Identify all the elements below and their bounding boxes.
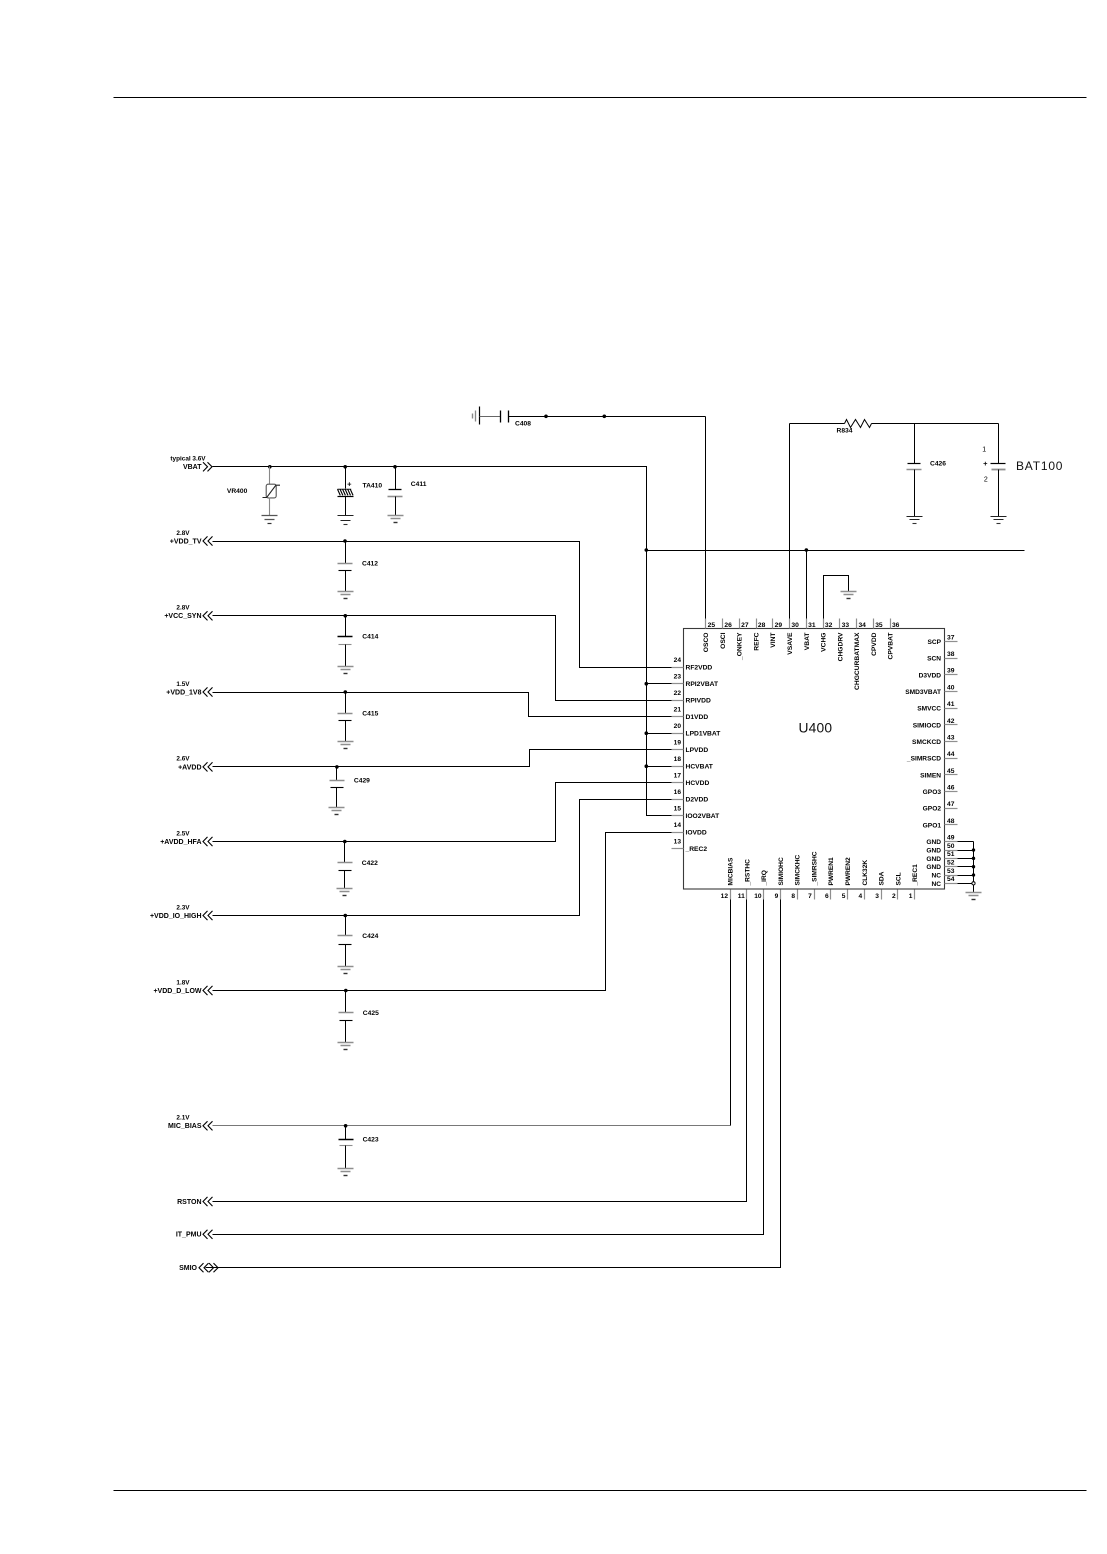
svg-text:2.8V: 2.8V [176, 605, 190, 612]
svg-text:22: 22 [674, 690, 682, 697]
svg-text:C429: C429 [354, 778, 370, 785]
svg-text:17: 17 [674, 773, 682, 780]
svg-text:BAT100: BAT100 [1016, 459, 1063, 473]
svg-text:CHGDRV: CHGDRV [837, 632, 844, 661]
svg-text:OSCI: OSCI [720, 632, 727, 648]
svg-text:_REC2: _REC2 [685, 846, 708, 853]
svg-text:typical 3.6V: typical 3.6V [170, 456, 206, 463]
svg-text:RPI2VBAT: RPI2VBAT [686, 681, 719, 688]
svg-text:1.5V: 1.5V [176, 681, 190, 688]
svg-text:VSAVE: VSAVE [787, 632, 794, 655]
svg-text:GND: GND [926, 839, 941, 846]
svg-text:49: 49 [947, 835, 955, 842]
svg-text:34: 34 [858, 622, 866, 629]
svg-text:MIC_BIAS: MIC_BIAS [168, 1123, 202, 1130]
svg-text:14: 14 [674, 822, 682, 829]
svg-text:52: 52 [947, 859, 955, 866]
svg-text:46: 46 [947, 784, 955, 791]
svg-text:53: 53 [947, 868, 955, 875]
svg-text:18: 18 [674, 756, 682, 763]
svg-text:7: 7 [808, 893, 812, 900]
svg-text:IOO2VBAT: IOO2VBAT [686, 813, 721, 820]
svg-text:RF2VDD: RF2VDD [686, 665, 713, 672]
svg-text:NC: NC [931, 872, 941, 879]
svg-text:_RSTHC: _RSTHC [744, 859, 751, 887]
svg-text:VINT: VINT [770, 632, 777, 648]
svg-text:SMVCC: SMVCC [917, 706, 941, 713]
svg-text:+VDD_IO_HIGH: +VDD_IO_HIGH [150, 913, 202, 920]
svg-text:C425: C425 [363, 1010, 379, 1017]
svg-text:C415: C415 [362, 711, 378, 718]
svg-text:IT_PMU: IT_PMU [176, 1232, 202, 1239]
svg-text:SIMEN: SIMEN [920, 772, 941, 779]
svg-text:+: + [983, 459, 988, 468]
svg-text:51: 51 [947, 851, 955, 858]
svg-text:48: 48 [947, 818, 955, 825]
svg-text:3: 3 [875, 893, 879, 900]
svg-text:VBAT: VBAT [183, 464, 202, 471]
svg-text:C408: C408 [515, 421, 531, 428]
svg-text:28: 28 [758, 622, 766, 629]
svg-text:SCN: SCN [927, 656, 941, 663]
svg-text:2.1V: 2.1V [176, 1115, 190, 1122]
svg-text:_ONKEY: _ONKEY [737, 632, 744, 661]
svg-text:GPO1: GPO1 [923, 822, 942, 829]
svg-text:2: 2 [984, 477, 988, 484]
svg-text:C412: C412 [362, 561, 378, 568]
svg-text:37: 37 [947, 634, 955, 641]
svg-text:20: 20 [674, 723, 682, 730]
svg-text:SMCKCD: SMCKCD [912, 739, 941, 746]
svg-text:RSTON: RSTON [177, 1199, 201, 1206]
svg-text:40: 40 [947, 684, 955, 691]
svg-text:2.8V: 2.8V [176, 530, 190, 537]
svg-text:GND: GND [926, 847, 941, 854]
svg-text:21: 21 [674, 707, 682, 714]
svg-text:HCVDD: HCVDD [686, 780, 710, 787]
svg-text:+VDD_1V8: +VDD_1V8 [166, 689, 201, 696]
svg-text:2: 2 [892, 893, 896, 900]
svg-text:1: 1 [909, 893, 913, 900]
svg-text:35: 35 [875, 622, 883, 629]
svg-text:GND: GND [926, 864, 941, 871]
svg-text:+VDD_D_LOW: +VDD_D_LOW [153, 988, 201, 995]
svg-text:16: 16 [674, 789, 682, 796]
svg-text:PWREN1: PWREN1 [828, 857, 835, 886]
svg-text:+AVDD: +AVDD [178, 764, 201, 771]
svg-text:26: 26 [724, 622, 732, 629]
svg-text:23: 23 [674, 674, 682, 681]
svg-text:LPD1VBAT: LPD1VBAT [686, 731, 722, 738]
svg-text:44: 44 [947, 751, 955, 758]
svg-text:MICBIAS: MICBIAS [728, 857, 735, 885]
svg-text:54: 54 [947, 876, 955, 883]
svg-text:42: 42 [947, 718, 955, 725]
svg-text:SCP: SCP [927, 639, 941, 646]
svg-text:30: 30 [791, 622, 799, 629]
svg-text:+VDD_TV: +VDD_TV [170, 538, 202, 545]
svg-text:VBAT: VBAT [804, 632, 811, 651]
svg-text:C424: C424 [362, 933, 378, 940]
svg-text:27: 27 [741, 622, 749, 629]
svg-text:47: 47 [947, 801, 955, 808]
svg-text:SMD3VBAT: SMD3VBAT [905, 689, 941, 696]
svg-text:SIMIOHC: SIMIOHC [778, 857, 785, 885]
svg-text:_REC1: _REC1 [912, 864, 919, 887]
svg-text:C411: C411 [411, 481, 427, 488]
svg-text:41: 41 [947, 701, 955, 708]
svg-text:33: 33 [842, 622, 850, 629]
svg-text:C422: C422 [362, 860, 378, 867]
svg-text:39: 39 [947, 668, 955, 675]
svg-text:SDA: SDA [879, 871, 886, 885]
svg-text:CPVDD: CPVDD [871, 632, 878, 656]
svg-text:29: 29 [775, 622, 783, 629]
svg-text:13: 13 [674, 839, 682, 846]
svg-text:+AVDD_HFA: +AVDD_HFA [160, 839, 201, 846]
svg-text:8: 8 [791, 893, 795, 900]
svg-text:CHGCURBATMAX: CHGCURBATMAX [854, 632, 861, 690]
svg-text:D2VDD: D2VDD [686, 797, 709, 804]
svg-text:+: + [347, 479, 352, 488]
svg-text:D3VDD: D3VDD [919, 672, 942, 679]
svg-text:25: 25 [708, 622, 716, 629]
svg-text:11: 11 [738, 893, 745, 900]
svg-text:TA410: TA410 [363, 482, 383, 489]
svg-text:50: 50 [947, 843, 955, 850]
svg-text:OSCO: OSCO [703, 633, 710, 653]
svg-text:RPIVDD: RPIVDD [686, 698, 711, 705]
svg-text:R834: R834 [837, 427, 853, 434]
svg-text:SIMIOCD: SIMIOCD [913, 722, 941, 729]
svg-text:12: 12 [721, 893, 729, 900]
svg-text:SCL: SCL [895, 872, 902, 885]
svg-text:15: 15 [674, 806, 682, 813]
svg-text:_IRQ: _IRQ [761, 870, 768, 886]
svg-text:45: 45 [947, 768, 955, 775]
svg-text:U400: U400 [799, 721, 833, 736]
svg-text:_SIMRSHC: _SIMRSHC [811, 851, 818, 886]
svg-text:38: 38 [947, 651, 955, 658]
svg-text:C414: C414 [362, 634, 378, 641]
svg-text:VR400: VR400 [227, 488, 248, 495]
svg-text:4: 4 [858, 893, 862, 900]
svg-text:36: 36 [892, 622, 900, 629]
svg-text:6: 6 [825, 893, 829, 900]
svg-text:SMIO: SMIO [179, 1265, 197, 1272]
svg-text:CPVBAT: CPVBAT [888, 632, 895, 660]
svg-text:PWREN2: PWREN2 [845, 857, 852, 886]
svg-text:43: 43 [947, 734, 955, 741]
svg-text:CLK32K: CLK32K [862, 860, 869, 886]
svg-text:VCHG: VCHG [821, 633, 828, 652]
svg-text:10: 10 [754, 893, 762, 900]
svg-text:GND: GND [926, 856, 941, 863]
svg-text:1.8V: 1.8V [176, 979, 190, 986]
svg-text:NC: NC [931, 881, 941, 888]
svg-text:19: 19 [674, 740, 682, 747]
svg-text:9: 9 [775, 893, 779, 900]
svg-text:D1VDD: D1VDD [686, 714, 709, 721]
svg-text:2.6V: 2.6V [176, 756, 190, 763]
svg-text:5: 5 [842, 893, 846, 900]
svg-text:31: 31 [808, 622, 816, 629]
svg-text:+VCC_SYN: +VCC_SYN [164, 613, 201, 620]
svg-text:2.5V: 2.5V [176, 830, 190, 837]
svg-text:1: 1 [982, 447, 986, 454]
svg-text:HCVBAT: HCVBAT [686, 764, 714, 771]
svg-text:LPVDD: LPVDD [686, 747, 709, 754]
svg-text:32: 32 [825, 622, 833, 629]
svg-text:GPO3: GPO3 [923, 789, 942, 796]
svg-text:C426: C426 [930, 461, 946, 468]
svg-text:GPO2: GPO2 [923, 806, 942, 813]
svg-text:SIMCKHC: SIMCKHC [795, 854, 802, 885]
svg-text:IOVDD: IOVDD [686, 830, 707, 837]
svg-text:_SIMRSCD: _SIMRSCD [906, 756, 941, 763]
svg-text:2.3V: 2.3V [176, 904, 190, 911]
svg-text:24: 24 [674, 657, 682, 664]
svg-text:C423: C423 [363, 1137, 379, 1144]
svg-text:REFC: REFC [753, 632, 760, 650]
